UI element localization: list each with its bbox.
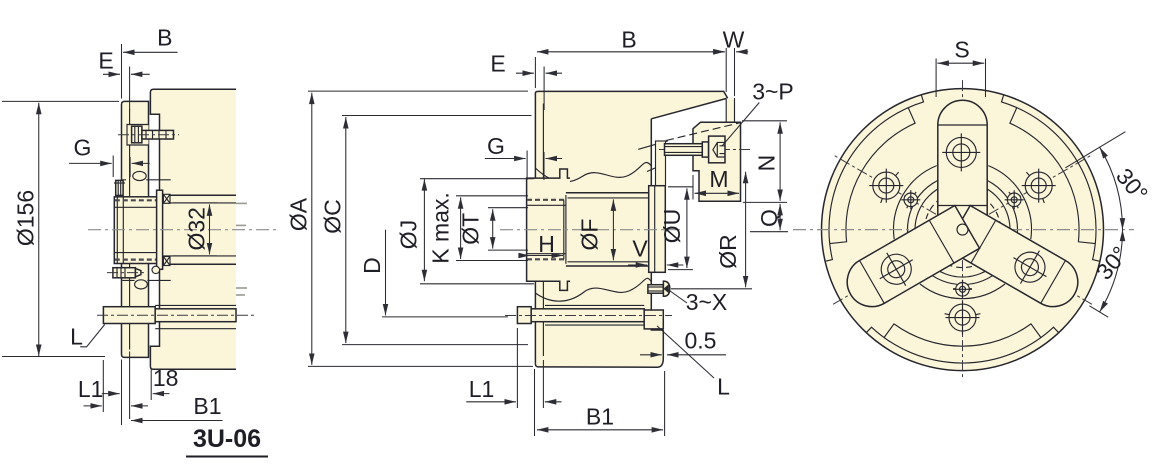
draw pin xyxy=(103,307,155,324)
jaw lower-left xyxy=(945,206,1086,316)
face ring arcs xyxy=(1002,95,1100,261)
dim DJ xyxy=(396,220,422,249)
svg-text:E: E xyxy=(490,51,505,77)
front boss xyxy=(527,169,570,290)
draw pin slot lines xyxy=(545,305,644,325)
body outline xyxy=(535,91,727,364)
svg-text:18: 18 xyxy=(153,365,179,391)
dim D156 xyxy=(13,190,39,246)
30 deg label lower xyxy=(1091,241,1133,284)
hub bore chamfer lines xyxy=(114,197,157,264)
bore DF walls xyxy=(566,193,649,266)
RIGHT VIEW: chuck front face xyxy=(793,37,1153,381)
hub thread dashes top xyxy=(115,200,157,259)
wedge guide dashed line xyxy=(666,123,741,141)
draw pin left head xyxy=(517,307,531,324)
svg-text:S: S xyxy=(954,37,969,63)
adapter plate xyxy=(122,101,149,357)
svg-text:D: D xyxy=(359,257,385,274)
svg-text:M: M xyxy=(709,166,728,192)
center hole xyxy=(957,224,968,235)
top screw centerline xyxy=(118,134,179,136)
top mounting screw head xyxy=(132,126,142,143)
svg-text:B: B xyxy=(621,27,636,53)
front plate seam xyxy=(542,104,544,357)
dim D32 xyxy=(184,207,210,250)
X set screw head xyxy=(663,281,669,296)
dim DU xyxy=(659,209,685,244)
svg-text:L1: L1 xyxy=(78,376,104,402)
E extension lines xyxy=(121,44,123,99)
bolt P head xyxy=(709,136,725,163)
pin centerline xyxy=(97,314,254,316)
svg-text:Ø156: Ø156 xyxy=(13,190,39,246)
svg-text:L1: L1 xyxy=(469,376,495,402)
svg-text:ØT: ØT xyxy=(458,213,484,245)
jaw axis centerlines xyxy=(962,80,964,380)
wedge slot slant xyxy=(638,141,668,150)
dim DF xyxy=(577,219,603,251)
dim N xyxy=(754,155,780,172)
bolt seat arcs xyxy=(1026,172,1044,203)
body fill xyxy=(535,91,727,367)
LEFT VIEW: chuck 3U-06 side section xyxy=(2,25,278,457)
svg-text:ØU: ØU xyxy=(659,209,685,244)
small oval bottom right xyxy=(152,266,160,273)
screw seat arcs xyxy=(1009,192,1018,208)
svg-text:3U-06: 3U-06 xyxy=(193,425,261,453)
seal X bottom xyxy=(163,257,170,266)
main centerline xyxy=(88,229,278,231)
thread bore dashed crest lines xyxy=(527,200,567,259)
jaw (top, master) xyxy=(938,100,987,235)
body back slant edge xyxy=(651,98,727,119)
bore back wall xyxy=(648,193,650,266)
X set screw shaft xyxy=(648,285,664,294)
dim DC xyxy=(320,199,346,234)
svg-text:G: G xyxy=(73,135,91,161)
MIDDLE VIEW: chuck full side section xyxy=(286,27,794,437)
jaw strip xyxy=(656,141,666,186)
oval hole top xyxy=(122,179,170,181)
hub rear flange xyxy=(157,190,163,269)
chuck outer circle xyxy=(822,89,1104,371)
dim Q xyxy=(756,209,782,227)
jaw lower-right xyxy=(838,206,979,316)
top mounting screw counterbore xyxy=(127,125,149,146)
svg-text:ØC: ØC xyxy=(320,199,346,234)
bolt P centerline xyxy=(659,149,751,151)
svg-text:ØR: ØR xyxy=(715,234,741,269)
rear plate bar (DU spigot) xyxy=(649,186,666,273)
jaw mounting block xyxy=(693,122,741,201)
vertical pilot screw top xyxy=(116,180,123,195)
svg-text:H: H xyxy=(538,231,555,257)
dim DT xyxy=(458,213,484,245)
svg-text:ØF: ØF xyxy=(577,219,603,251)
svg-text:Ø32: Ø32 xyxy=(184,207,210,250)
chuck body fill xyxy=(150,89,236,369)
30 deg angle dimension xyxy=(1065,132,1125,168)
svg-text:0.5: 0.5 xyxy=(685,328,717,354)
body bottom edge xyxy=(535,330,663,367)
svg-text:B1: B1 xyxy=(193,393,221,419)
hub cylinder outer xyxy=(160,195,237,264)
svg-text:ØJ: ØJ xyxy=(396,220,422,249)
svg-text:G: G xyxy=(487,133,505,159)
svg-text:3~P: 3~P xyxy=(752,79,794,105)
body break ticks xyxy=(236,203,247,295)
mounting bolt holes xyxy=(869,169,903,203)
front hub assembly xyxy=(107,171,171,289)
hub bore lines (D32) xyxy=(163,203,236,256)
center bore dashed circle xyxy=(925,192,1001,268)
wedge slot slant lower xyxy=(647,164,664,171)
seal X top xyxy=(163,194,170,203)
main centerline xyxy=(500,229,680,231)
bolt P shaft xyxy=(665,144,703,156)
svg-text:E: E xyxy=(98,48,113,74)
draw pin right head xyxy=(644,310,663,329)
draw pin shaft xyxy=(531,309,644,322)
X set screw socket xyxy=(664,285,668,292)
dim D xyxy=(359,257,385,274)
boss ring arcs xyxy=(988,166,1031,240)
thread end wall xyxy=(564,195,566,264)
hub block xyxy=(114,197,157,264)
adapter plate seam line xyxy=(129,109,131,350)
pin centerline xyxy=(505,315,672,317)
svg-text:B1: B1 xyxy=(586,404,614,430)
top mounting screw shaft xyxy=(142,130,174,139)
draw pin slot lines xyxy=(155,305,236,328)
30 deg label upper xyxy=(1111,163,1153,206)
G extension lines xyxy=(112,156,114,178)
central boss circles xyxy=(908,175,1018,285)
svg-text:V: V xyxy=(632,236,648,262)
bottom break wavy line xyxy=(535,278,651,301)
bolt P hex socket xyxy=(713,142,725,157)
wedge bar (W) xyxy=(726,99,734,122)
thread bore root lines xyxy=(527,205,566,253)
bottom set screw xyxy=(113,268,135,278)
svg-text:K max.: K max. xyxy=(428,192,454,264)
set screw holes xyxy=(901,190,920,209)
svg-text:B: B xyxy=(157,25,172,51)
bolt P washer xyxy=(702,142,708,157)
svg-text:ØA: ØA xyxy=(286,197,312,231)
svg-text:L: L xyxy=(70,324,83,350)
svg-text:N: N xyxy=(754,155,780,172)
oval hole bottom xyxy=(122,279,170,281)
svg-text:Q: Q xyxy=(756,209,782,227)
svg-text:L: L xyxy=(717,374,730,400)
horizontal centerline xyxy=(793,229,1134,231)
top break wavy line xyxy=(535,163,651,183)
dim K max. xyxy=(428,192,454,264)
dim DA xyxy=(286,197,312,231)
chuck body outline xyxy=(150,89,236,369)
svg-text:3~X: 3~X xyxy=(686,289,728,315)
dim DR xyxy=(715,234,741,269)
face plateau arcs xyxy=(1010,108,1095,244)
body back face xyxy=(651,119,663,330)
